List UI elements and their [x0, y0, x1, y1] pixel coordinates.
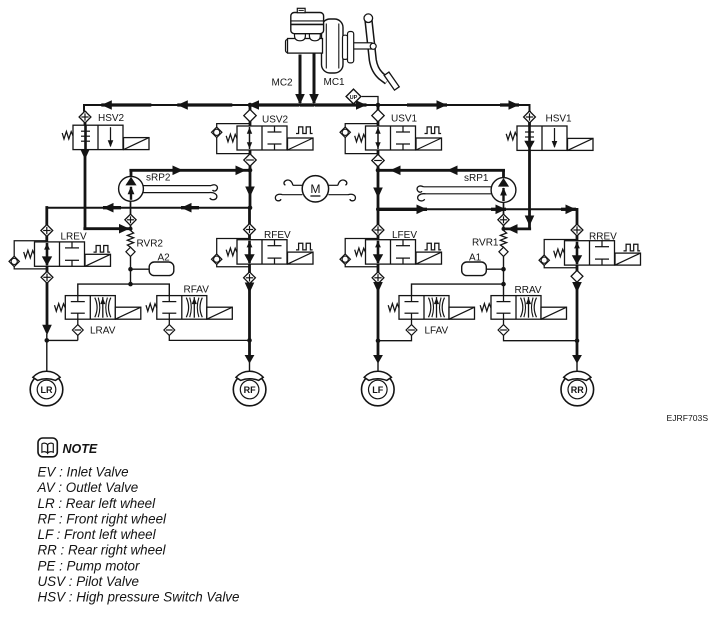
svg-text:LFAV: LFAV — [425, 326, 449, 337]
svg-text:USV : Pilot Valve: USV : Pilot Valve — [38, 574, 139, 589]
svg-text:RREV: RREV — [589, 232, 617, 243]
svg-text:USV1: USV1 — [391, 114, 418, 125]
svg-text:AV : Outlet Valve: AV : Outlet Valve — [37, 480, 139, 495]
svg-text:RVR1: RVR1 — [472, 238, 499, 249]
svg-text:LR : Rear left wheel: LR : Rear left wheel — [38, 496, 157, 511]
svg-text:LF: LF — [372, 385, 383, 395]
svg-text:LREV: LREV — [61, 232, 87, 243]
svg-text:A2: A2 — [158, 253, 171, 264]
svg-text:HSV : High pressure Switch Val: HSV : High pressure Switch Valve — [38, 590, 240, 605]
svg-text:LFEV: LFEV — [392, 230, 417, 241]
svg-text:RRAV: RRAV — [515, 285, 542, 296]
svg-text:LR: LR — [41, 385, 53, 395]
svg-text:NOTE: NOTE — [63, 442, 98, 456]
svg-text:EV : Inlet Valve: EV : Inlet Valve — [38, 465, 129, 480]
svg-text:MC2: MC2 — [272, 78, 294, 89]
svg-text:LRAV: LRAV — [90, 326, 116, 337]
svg-text:RFAV: RFAV — [184, 285, 210, 296]
svg-text:RF: RF — [244, 385, 256, 395]
svg-text:MC1: MC1 — [324, 77, 346, 88]
svg-text:RR : Rear right wheel: RR : Rear right wheel — [38, 543, 167, 558]
svg-text:HSV2: HSV2 — [98, 113, 125, 124]
svg-text:sRP1: sRP1 — [464, 173, 489, 184]
svg-text:A1: A1 — [469, 253, 482, 264]
svg-text:UP: UP — [350, 95, 358, 101]
svg-text:EJRF703S: EJRF703S — [667, 413, 709, 423]
svg-text:LF : Front left wheel: LF : Front left wheel — [38, 527, 157, 542]
svg-text:USV2: USV2 — [262, 115, 289, 126]
svg-text:PE : Pump motor: PE : Pump motor — [38, 558, 140, 573]
svg-text:RFEV: RFEV — [264, 230, 291, 241]
svg-text:HSV1: HSV1 — [546, 114, 573, 125]
svg-text:RR: RR — [571, 385, 584, 395]
svg-text:sRP2: sRP2 — [146, 173, 171, 184]
svg-text:M: M — [310, 182, 320, 196]
svg-text:RF : Front right wheel: RF : Front right wheel — [38, 511, 168, 526]
svg-text:RVR2: RVR2 — [137, 239, 164, 250]
